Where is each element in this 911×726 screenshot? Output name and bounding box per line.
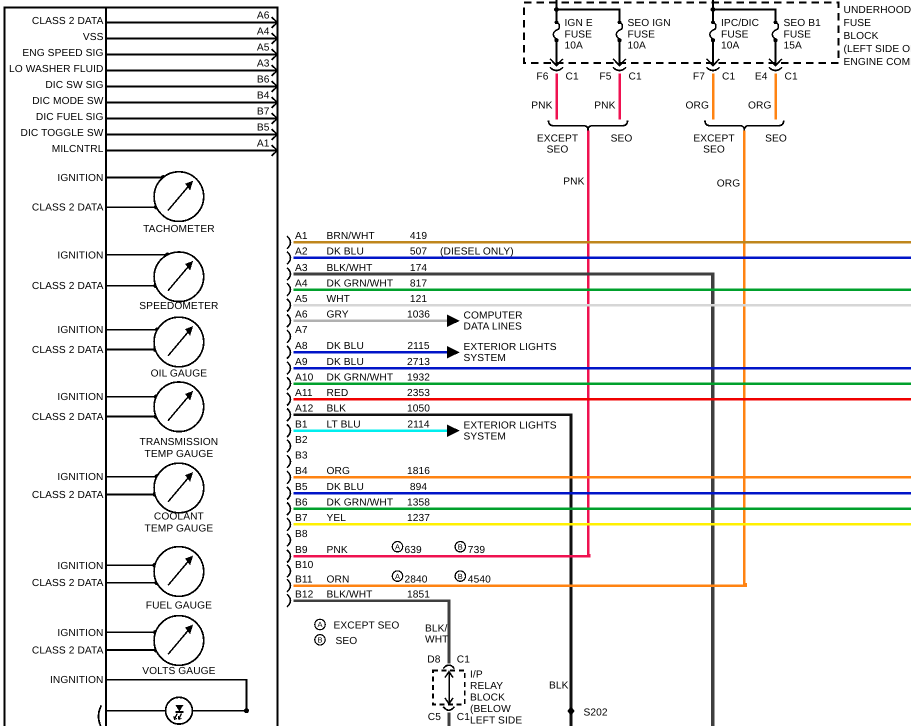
wire A4 DK GRN/WHT 817 (294, 278, 911, 289)
svg-text:1036: 1036 (407, 310, 430, 321)
svg-text:10A: 10A (565, 41, 584, 52)
connector pin arc A12 (287, 409, 291, 422)
svg-text:UNDERHOOD: UNDERHOOD (844, 5, 911, 16)
svg-text:A: A (395, 542, 400, 551)
fuse SEO IGN 10A (613, 18, 670, 66)
svg-text:A3: A3 (257, 59, 270, 70)
pin B9 (295, 545, 308, 556)
svg-text:IGNITION: IGNITION (57, 173, 103, 184)
pin B11 (295, 574, 313, 585)
svg-text:DK BLU: DK BLU (327, 482, 364, 493)
svg-text:DIC SW SIG: DIC SW SIG (45, 80, 103, 91)
wire CLASS 2 DATA to pin A6 (32, 16, 277, 27)
connector pin arc B7 (287, 518, 291, 531)
svg-text:OIL GAUGE: OIL GAUGE (151, 369, 208, 380)
pin A7 (295, 325, 308, 336)
splice S202 (567, 707, 608, 719)
connector pin arc B5 (287, 487, 291, 500)
svg-text:SPEEDOMETER: SPEEDOMETER (139, 301, 218, 312)
pin A8 (295, 341, 308, 352)
pin A1 (257, 139, 277, 156)
wire A5 WHT 121 (294, 294, 911, 305)
svg-text:1932: 1932 (407, 372, 430, 383)
svg-text:IGNITION: IGNITION (57, 392, 103, 403)
svg-text:10A: 10A (721, 41, 740, 52)
wire B1 LT BLU 2114 (294, 420, 557, 443)
svg-text:B9: B9 (295, 545, 308, 556)
wire PNK fuse pigtail (594, 74, 619, 120)
svg-text:INGNITION: INGNITION (50, 675, 104, 686)
pin A3 (257, 59, 277, 76)
svg-text:BLK/WHT: BLK/WHT (327, 263, 373, 274)
svg-text:2713: 2713 (407, 357, 430, 368)
svg-text:SYSTEM: SYSTEM (464, 432, 507, 443)
node junction at lamp wire (244, 708, 249, 713)
wire CLASS 2 DATA to speedometer gauge (32, 281, 158, 292)
svg-text:IGNITION: IGNITION (57, 472, 103, 483)
svg-text:B: B (458, 572, 463, 581)
connector pin arc B11 (287, 579, 291, 592)
svg-text:B6: B6 (257, 75, 270, 86)
wire B11 ORN 2840/4540 (294, 571, 746, 586)
connector pin arc B10 (287, 565, 291, 578)
svg-text:IGNITION: IGNITION (57, 325, 103, 336)
wire PNK to pin B9 vertical (563, 131, 588, 557)
pin A12 (295, 404, 314, 415)
legend A EXCEPT SEO (315, 619, 400, 631)
svg-text:894: 894 (410, 482, 428, 493)
pin C1 (629, 71, 642, 82)
wire B9 PNK 639/739 (294, 542, 590, 557)
wire MILCNTRL to pin A1 (52, 144, 277, 155)
svg-text:PNK: PNK (594, 101, 615, 112)
svg-text:SEO: SEO (336, 636, 358, 647)
pin F6 (536, 71, 548, 82)
svg-text:EXTERIOR LIGHTS: EXTERIOR LIGHTS (464, 420, 557, 431)
svg-text:B4: B4 (295, 466, 308, 477)
connector pin arc B2 (287, 440, 291, 453)
svg-text:CLASS 2 DATA: CLASS 2 DATA (32, 578, 104, 589)
svg-text:B7: B7 (295, 513, 308, 524)
svg-text:A12: A12 (295, 404, 314, 415)
svg-text:EXCEPT: EXCEPT (693, 134, 734, 145)
pin B6 (257, 75, 277, 92)
svg-text:15A: 15A (784, 41, 803, 52)
fuse SEO B1 15A (769, 18, 821, 66)
svg-text:WHT: WHT (327, 294, 351, 305)
wire A10 DK GRN/WHT 1932 (294, 372, 911, 383)
label EXCEPT SEO right (693, 134, 734, 156)
svg-text:817: 817 (410, 278, 428, 289)
wire ORG fuse pigtail (748, 74, 776, 120)
pin C5 (428, 712, 441, 723)
wire CLASS 2 DATA to transmission gauge (32, 412, 159, 423)
pin A2 (295, 247, 308, 258)
svg-text:639: 639 (405, 545, 423, 556)
gauge SPEEDOMETER (139, 252, 218, 312)
svg-text:C1: C1 (457, 655, 470, 666)
svg-text:121: 121 (410, 294, 428, 305)
wire LO WASHER FLUID to pin A3 (9, 64, 277, 75)
svg-text:B1: B1 (295, 420, 308, 431)
svg-text:WHT: WHT (425, 634, 449, 645)
svg-text:(LEFT SIDE OF: (LEFT SIDE OF (844, 44, 911, 55)
svg-text:ORG: ORG (748, 101, 772, 112)
svg-text:BLK/: BLK/ (425, 623, 448, 634)
svg-text:A4: A4 (295, 278, 308, 289)
connector arc C5/C1 (443, 707, 454, 711)
svg-text:DIC MODE SW: DIC MODE SW (32, 96, 104, 107)
svg-text:PNK: PNK (531, 101, 552, 112)
pin C1 (785, 71, 798, 82)
wire A8 DK BLU 2115 (294, 341, 557, 364)
svg-text:C1: C1 (785, 71, 798, 82)
pin B4 (295, 466, 308, 477)
wire B6 DK GRN/WHT 1358 (294, 498, 911, 509)
svg-text:1816: 1816 (407, 466, 430, 477)
svg-text:10A: 10A (628, 41, 647, 52)
pin B5 (295, 482, 308, 493)
pin C1 top (457, 655, 470, 666)
svg-text:A10: A10 (295, 372, 314, 383)
wire CLASS 2 DATA to fuel gauge (32, 578, 159, 589)
connector arc E4/C1 (769, 67, 782, 70)
label SEO right (765, 134, 787, 145)
pin B5 (257, 123, 277, 140)
svg-text:ENGINE COMP: ENGINE COMP (844, 57, 911, 68)
svg-text:B: B (458, 542, 463, 551)
connector pin arc A5 (287, 299, 291, 312)
pin E4 (755, 71, 768, 82)
label BLK on ground wire (549, 681, 569, 692)
pin F7 (693, 71, 705, 82)
svg-text:174: 174 (410, 263, 428, 274)
pin A5 (257, 43, 277, 60)
legend B SEO (315, 635, 358, 647)
wire A11 RED 2353 (294, 388, 911, 399)
svg-text:F5: F5 (599, 71, 611, 82)
svg-text:TACHOMETER: TACHOMETER (143, 224, 215, 235)
wire lamp row (106, 710, 247, 712)
pin A5 (295, 294, 308, 305)
svg-text:I/P: I/P (470, 670, 483, 681)
label I/P RELAY BLOCK (470, 670, 522, 726)
connector pin arc A3 (287, 268, 291, 281)
wire B7 YEL 1237 (294, 513, 911, 524)
svg-text:PNK: PNK (327, 545, 348, 556)
wire A6 GRY 1036 (294, 310, 523, 333)
gauge FUEL GAUGE (146, 547, 212, 612)
svg-text:SEO IGN: SEO IGN (628, 18, 671, 29)
svg-text:CLASS 2 DATA: CLASS 2 DATA (32, 345, 104, 356)
connector pin arc B8 (287, 534, 291, 547)
svg-text:RELAY: RELAY (470, 681, 503, 692)
gauge OIL GAUGE (151, 317, 208, 379)
wire IGNITION to coolant gauge (57, 472, 159, 483)
svg-text:MILCNTRL: MILCNTRL (52, 144, 104, 155)
connector arc F6/C1 (550, 67, 563, 70)
svg-text:FUSE: FUSE (784, 29, 812, 40)
wire IGNITION to volts gauge (57, 628, 157, 639)
wire B4 ORG 1816 (294, 466, 911, 477)
svg-text:YEL: YEL (327, 513, 347, 524)
wire B5 DK BLU 894 (294, 482, 911, 493)
indicator lamp (166, 697, 193, 724)
svg-text:C1: C1 (722, 71, 735, 82)
connector arc F5/C1 (613, 67, 626, 70)
svg-text:A: A (395, 572, 400, 581)
label BLK/WHT vertical wire (425, 623, 449, 645)
wire CLASS 2 DATA to oil gauge (32, 345, 158, 356)
svg-text:1851: 1851 (407, 589, 430, 600)
wire A2 DK BLU 507 (294, 247, 911, 258)
svg-text:ORN: ORN (327, 574, 350, 585)
pin B1 (295, 420, 308, 431)
svg-text:FUEL GAUGE: FUEL GAUGE (146, 601, 212, 612)
svg-text:BLK: BLK (549, 681, 569, 692)
svg-text:BLK/WHT: BLK/WHT (327, 589, 373, 600)
gauge COOLANT TEMP GAUGE (145, 463, 214, 534)
pin B2 (295, 435, 308, 446)
I/P relay block dashed box (433, 671, 465, 705)
svg-text:C1: C1 (566, 71, 579, 82)
label underhood fuse block (844, 5, 911, 68)
wire IGNITION to tachometer gauge (57, 173, 165, 184)
instrument cluster module box (5, 8, 278, 726)
svg-text:DK GRN/WHT: DK GRN/WHT (327, 278, 394, 289)
wire CLASS 2 DATA to coolant gauge (32, 490, 157, 501)
svg-text:E4: E4 (755, 71, 768, 82)
fuse IGN E 10A (550, 18, 593, 66)
pin A3 (295, 263, 308, 274)
connector pin arc A8 (287, 346, 291, 359)
svg-text:IPC/DIC: IPC/DIC (721, 18, 759, 29)
svg-text:DK GRN/WHT: DK GRN/WHT (327, 372, 394, 383)
connector pin arc B4 (287, 471, 291, 484)
svg-text:419: 419 (410, 231, 428, 242)
svg-text:GRY: GRY (327, 310, 349, 321)
svg-text:739: 739 (468, 545, 486, 556)
wire ORG to pin B11 vertical (717, 131, 745, 586)
wire CLASS 2 DATA to volts gauge (32, 646, 158, 657)
svg-text:2840: 2840 (405, 574, 428, 585)
svg-text:BRN/WHT: BRN/WHT (327, 231, 375, 242)
wire VSS to pin A4 (83, 32, 277, 43)
connector pin arc B1 (287, 424, 291, 437)
svg-text:B: B (317, 636, 322, 645)
wire IGNITION to fuel gauge (57, 561, 157, 572)
wire DIC FUEL SIG to pin B7 (36, 112, 277, 123)
svg-text:SEO: SEO (547, 145, 569, 156)
pin A1 (295, 231, 308, 242)
svg-text:DK BLU: DK BLU (327, 357, 364, 368)
svg-text:2114: 2114 (407, 420, 430, 431)
svg-text:B6: B6 (295, 498, 308, 509)
svg-text:B8: B8 (295, 529, 308, 540)
svg-text:F6: F6 (536, 71, 548, 82)
wire CLASS 2 DATA to tachometer gauge (32, 203, 159, 214)
svg-text:B5: B5 (295, 482, 308, 493)
pin A10 (295, 372, 314, 383)
svg-text:SEO: SEO (611, 134, 633, 145)
pin A4 (295, 278, 308, 289)
pin B7 (257, 107, 277, 124)
svg-text:A2: A2 (295, 247, 308, 258)
svg-text:VOLTS GAUGE: VOLTS GAUGE (142, 666, 215, 677)
gauge TRANSMISSION TEMP GAUGE (140, 382, 219, 460)
pin B8 (295, 529, 308, 540)
node feed junction left (554, 7, 559, 12)
svg-text:LO WASHER FLUID: LO WASHER FLUID (9, 64, 104, 75)
svg-text:BLK: BLK (327, 404, 347, 415)
svg-text:A5: A5 (295, 294, 308, 305)
svg-text:SEO B1: SEO B1 (784, 18, 822, 29)
svg-text:A8: A8 (295, 341, 308, 352)
wire DIC MODE SW to pin B4 (32, 96, 277, 107)
wire IGNITION to speedometer gauge (57, 250, 169, 261)
pin C1 (722, 71, 735, 82)
pin B4 (257, 91, 277, 108)
connector pin arc A9 (287, 362, 291, 375)
svg-text:SYSTEM: SYSTEM (464, 353, 507, 364)
svg-text:FUSE: FUSE (565, 29, 593, 40)
pin B7 (295, 513, 308, 524)
pin A4 (257, 27, 277, 44)
svg-text:C1: C1 (457, 712, 470, 723)
fuse IPC/DIC 10A (707, 18, 759, 66)
svg-text:TRANSMISSION: TRANSMISSION (140, 437, 219, 448)
svg-text:TEMP GAUGE: TEMP GAUGE (145, 449, 214, 460)
pin B10 (295, 560, 314, 571)
connector pin arc A1 (287, 236, 291, 249)
connector pin arc B9 (287, 550, 291, 563)
svg-text:RED: RED (327, 388, 349, 399)
svg-text:SEO: SEO (765, 134, 787, 145)
relay block pass-through wire with arrows (445, 672, 453, 704)
svg-text:B2: B2 (295, 435, 308, 446)
svg-text:CLASS 2 DATA: CLASS 2 DATA (32, 490, 104, 501)
label SEO left (611, 134, 633, 145)
svg-text:2115: 2115 (407, 341, 430, 352)
wire DIC SW SIG to pin B6 (45, 80, 277, 91)
svg-text:A9: A9 (295, 357, 308, 368)
svg-text:ORG: ORG (717, 178, 741, 189)
wire A12 BLK 1050 (294, 404, 572, 726)
wire A9 DK BLU 2713 (294, 357, 911, 368)
wire IGNITION to transmission gauge (57, 392, 158, 403)
svg-text:EXCEPT: EXCEPT (537, 134, 578, 145)
svg-text:F7: F7 (693, 71, 705, 82)
svg-text:A6: A6 (257, 11, 270, 22)
svg-text:ORG: ORG (685, 101, 709, 112)
svg-text:COOLANT: COOLANT (154, 512, 204, 523)
svg-text:CLASS 2 DATA: CLASS 2 DATA (32, 281, 104, 292)
label EXCEPT SEO left (537, 134, 578, 156)
connector pin arc B6 (287, 503, 291, 516)
svg-text:B4: B4 (257, 91, 270, 102)
svg-text:VSS: VSS (83, 32, 104, 43)
pin A11 (295, 388, 313, 399)
connector pin arc A2 (287, 252, 291, 265)
svg-text:A11: A11 (295, 388, 313, 399)
svg-text:A7: A7 (295, 325, 308, 336)
pin D8 (427, 655, 440, 666)
svg-text:A: A (317, 620, 322, 629)
svg-text:BLOCK: BLOCK (844, 31, 879, 42)
svg-text:DK BLU: DK BLU (327, 247, 364, 258)
svg-text:2353: 2353 (407, 388, 430, 399)
svg-text:CLASS 2 DATA: CLASS 2 DATA (32, 412, 104, 423)
svg-text:C1: C1 (629, 71, 642, 82)
svg-text:FUSE: FUSE (628, 29, 656, 40)
svg-text:EXCEPT SEO: EXCEPT SEO (334, 621, 400, 632)
svg-text:B7: B7 (257, 107, 270, 118)
svg-text:IGN E: IGN E (565, 18, 593, 29)
svg-text:DK GRN/WHT: DK GRN/WHT (327, 498, 394, 509)
svg-text:507: 507 (410, 247, 428, 258)
connector pin arc A7 (287, 330, 291, 343)
svg-text:DK BLU: DK BLU (327, 341, 364, 352)
svg-text:IGNITION: IGNITION (57, 561, 103, 572)
wire A1 BRN/WHT 419 (294, 231, 911, 242)
svg-text:1050: 1050 (407, 404, 430, 415)
wire below relay connector (448, 713, 451, 726)
connector pin arc A6 (287, 315, 291, 328)
connector pin arc B3 (287, 455, 291, 468)
svg-text:ORG: ORG (327, 466, 351, 477)
svg-text:A6: A6 (295, 310, 308, 321)
wire PNK fuse pigtail (531, 74, 556, 120)
connector pin arc A11 (287, 393, 291, 406)
svg-text:CLASS 2 DATA: CLASS 2 DATA (32, 646, 104, 657)
brace except-seo/seo right (705, 120, 784, 130)
pin A6 (295, 310, 308, 321)
pin F5 (599, 71, 611, 82)
svg-text:A5: A5 (257, 43, 270, 54)
connector pin arc A10 (287, 377, 291, 390)
svg-text:B12: B12 (295, 589, 314, 600)
svg-text:4540: 4540 (468, 574, 491, 585)
svg-text:SEO: SEO (703, 145, 725, 156)
connector pin arc B12 (287, 594, 291, 607)
svg-text:EXTERIOR LIGHTS: EXTERIOR LIGHTS (464, 342, 557, 353)
svg-text:A1: A1 (295, 231, 308, 242)
svg-text:S202: S202 (584, 707, 608, 718)
svg-text:LT BLU: LT BLU (327, 420, 361, 431)
connector pin arc A4 (287, 283, 291, 296)
svg-text:TEMP GAUGE: TEMP GAUGE (145, 524, 214, 535)
svg-text:IGNITION: IGNITION (57, 250, 103, 261)
svg-text:DIC FUEL SIG: DIC FUEL SIG (36, 112, 104, 123)
pin B12 (295, 589, 314, 600)
svg-text:A1: A1 (257, 139, 270, 150)
wire ORG fuse pigtail (685, 74, 713, 120)
connector arc F7/C1 (707, 67, 720, 70)
svg-text:(BELOW: (BELOW (470, 704, 511, 715)
pin C1 (566, 71, 579, 82)
connector arc bottom left (98, 706, 101, 726)
svg-text:FUSE: FUSE (844, 18, 872, 29)
svg-text:DIC TOGGLE SW: DIC TOGGLE SW (20, 128, 103, 139)
underhood fuse block dashed box (524, 3, 839, 64)
svg-text:1358: 1358 (407, 498, 430, 509)
wire DIC TOGGLE SW to pin B5 (20, 128, 277, 139)
gauge TACHOMETER (143, 172, 215, 235)
svg-text:B3: B3 (295, 450, 308, 461)
node feed junction right (711, 7, 716, 12)
svg-text:D8: D8 (427, 655, 440, 666)
svg-text:LEFT SIDE: LEFT SIDE (470, 716, 522, 726)
